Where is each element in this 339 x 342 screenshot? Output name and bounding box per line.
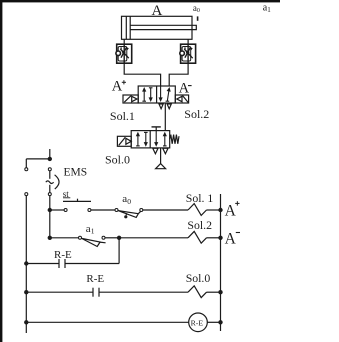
wire valve to Sol.0 valve: [164, 103, 166, 131]
node stub up: [49, 149, 51, 159]
valve 5/2 exhaust triangle right: [167, 104, 171, 109]
solenoid Sol.1 box: [123, 95, 138, 103]
rung2 junction: [48, 236, 52, 240]
branch down from rung2: [118, 238, 120, 264]
wire Sol.1 to rail: [207, 209, 221, 211]
coil Sol.0: [188, 286, 207, 298]
rung3 left junction: [24, 261, 28, 265]
border top bar: [0, 0, 280, 2]
svg-text:R-E: R-E: [191, 318, 204, 327]
svg-text:A: A: [112, 78, 123, 94]
wire cylinder right port: [187, 39, 189, 44]
wire Sol.0 to rail: [207, 291, 221, 293]
sensor tick a0: [197, 16, 199, 20]
rung1 junction: [48, 208, 52, 212]
svg-text:Sol.2: Sol.2: [187, 218, 212, 232]
wire left port to valve: [124, 63, 160, 86]
svg-text:Sol. 1: Sol. 1: [186, 191, 214, 205]
contact R-E rung3: [26, 259, 119, 268]
wire coil to rail: [207, 321, 220, 323]
wire Sol.2 to rail: [207, 237, 221, 239]
rung4 left junction: [24, 290, 28, 294]
Sol.0 valve blocked port T: [152, 127, 161, 131]
limit switch contact a0: [115, 209, 143, 219]
disconnect terminal lower: [25, 193, 28, 196]
svg-text:Sol.0: Sol.0: [105, 152, 130, 166]
wire right port to valve: [169, 63, 188, 86]
coil Sol.2: [188, 231, 207, 243]
wire a0 to Sol.1: [143, 209, 188, 211]
svg-text:A: A: [179, 81, 190, 97]
cylinder A body: [122, 16, 193, 39]
contact R-E rung4: [26, 288, 188, 297]
wire a1 to junction: [105, 237, 119, 239]
svg-text:A: A: [225, 230, 237, 247]
border left bar: [0, 0, 2, 342]
limit switch contact a1: [79, 236, 106, 246]
svg-text:EMS: EMS: [64, 167, 88, 179]
rung2 mid junction: [117, 236, 121, 240]
valve Sol.0 return spring: [170, 135, 179, 144]
valve Sol.0 right box arrows: [154, 131, 167, 147]
flow control valve right: [180, 44, 196, 63]
coil Sol.1: [188, 204, 207, 216]
valve Sol.0 body: [131, 131, 170, 148]
svg-text:R-E: R-E: [54, 249, 72, 261]
flow control valve left: [116, 44, 132, 63]
valve 5/2 body: [138, 86, 175, 103]
valve 5/2 exhaust triangle left: [159, 104, 163, 109]
svg-text:Sol.0: Sol.0: [186, 271, 211, 285]
node junction: [48, 157, 52, 161]
source triangle: [156, 164, 166, 169]
svg-text:R-E: R-E: [86, 273, 104, 285]
wire Sol.0 to source triangle: [160, 148, 162, 164]
valve 5/2 left box arrows: [142, 87, 153, 102]
EMS contact: [46, 168, 59, 196]
wire rung2 left: [50, 237, 79, 239]
svg-text:A: A: [225, 202, 237, 219]
cylinder piston: [125, 16, 127, 39]
solenoid Sol.0 box: [117, 136, 131, 146]
cylinder rod: [130, 25, 196, 29]
wire rung5: [26, 321, 188, 323]
wire a1 to Sol.2: [119, 237, 188, 239]
relay coil R-E: [189, 313, 208, 332]
svg-text:Sol.1: Sol.1: [110, 109, 135, 123]
rung4 rail junction: [218, 290, 222, 294]
left rail: [25, 196, 27, 333]
valve 5/2 right box arrows: [159, 86, 171, 102]
svg-text:Sol.2: Sol.2: [184, 107, 209, 121]
valve Sol.0 exhaust triangle right: [163, 148, 168, 153]
rung2 rail junction: [218, 236, 222, 240]
pushbutton st: [50, 199, 91, 212]
right rail: [220, 194, 222, 331]
valve Sol.0 left box arrows: [136, 132, 148, 147]
valve Sol.0 exhaust triangle left: [153, 148, 158, 153]
wire cylinder left port: [123, 39, 125, 44]
rung5 left junction: [24, 320, 28, 324]
second rail: [49, 196, 51, 238]
rung5 rail junction: [218, 320, 222, 324]
solenoid Sol.2 box: [175, 95, 188, 103]
rung1 rail junction: [218, 208, 222, 212]
ladder top wire: [26, 158, 50, 160]
disconnect terminal upper: [25, 159, 27, 168]
wire st to a0: [91, 209, 115, 211]
